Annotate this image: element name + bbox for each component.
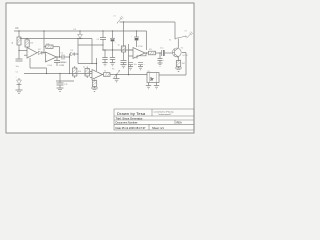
wire speaker to emitter [159, 53, 186, 76]
svg-text:1k: 1k [83, 67, 85, 69]
wire x92 right side of loop [91, 39, 93, 64]
svg-text:X1: X1 [114, 16, 116, 18]
op-amp U1B [46, 52, 57, 62]
svg-text:10k: 10k [46, 43, 49, 45]
ground left [16, 90, 23, 94]
wire x78 to diode [77, 45, 79, 64]
capacitor C3 on x103 [97, 31, 107, 50]
junction (78,54)? [77, 53, 78, 54]
wire input top y22 [120, 21, 176, 23]
ground under R4 [175, 67, 182, 72]
wire emitter down [177, 57, 179, 61]
resistor R10 feedback U1B [44, 43, 60, 48]
connector X1 input jack [114, 16, 124, 24]
junction rail x103 [102, 30, 103, 31]
capacitor C16 to ground [138, 63, 146, 70]
resistor R8 [118, 45, 126, 53]
svg-text:converted to sPlan by: converted to sPlan by [154, 110, 175, 113]
wire opamp1 minus input [19, 50, 27, 52]
wire U2 small loop [137, 53, 146, 59]
potentiometer P1 arrow [112, 69, 120, 82]
junction rail x80 [79, 30, 80, 31]
wire to C8 [156, 52, 162, 54]
wire left branch x19 upper [18, 31, 20, 37]
svg-text:Sheet: 1/1: Sheet: 1/1 [152, 126, 164, 130]
junction rail x19 [18, 30, 19, 31]
svg-text:REA: REA [177, 122, 182, 125]
wire x146.5 from rail [146, 31, 148, 50]
op-amp U3 [90, 70, 103, 80]
capacitor C13 branch on y57 [54, 56, 65, 66]
wire x123.5 down [123, 22, 125, 46]
wire x69.5 down to row2 [69, 57, 71, 74]
junction (46.5,73.5) [46, 73, 47, 74]
svg-text:Ub: Ub [15, 26, 19, 30]
svg-text:LS1: LS1 [147, 71, 150, 73]
resistor R3 [149, 49, 156, 55]
wire y73.5 row2 [24, 73, 92, 75]
junction rail x136.5 [136, 30, 137, 31]
svg-text:S1: S1 [169, 40, 171, 42]
junction (92,63.5) [91, 63, 92, 64]
wire x60 down [59, 74, 61, 82]
junction (59.5,57) [59, 56, 60, 57]
junction (80,38.5) [79, 38, 80, 39]
junction (160,53) [159, 52, 160, 53]
diode D5 under rail [74, 29, 83, 39]
wire y45 [78, 44, 103, 46]
svg-text:10u: 10u [160, 48, 163, 50]
resistor R2 top of opamp1 [25, 40, 33, 47]
wire x123.5 mid [123, 52, 125, 60]
wire y63.5 [78, 63, 97, 65]
wire x96.5 [96, 58, 98, 71]
wire R11 to pot [110, 74, 147, 77]
svg-text:BC547: BC547 [183, 55, 189, 57]
junction (128.5,74.5) [128, 74, 129, 75]
diode D1 [17, 78, 22, 90]
op-amp U2 [129, 46, 146, 59]
svg-text:3r: 3r [150, 76, 154, 81]
wire y81 stub [56, 80, 74, 82]
resistor R11 [104, 71, 111, 77]
title block [114, 109, 194, 130]
junction (60,73.5) [59, 73, 60, 74]
wire U3 out [103, 74, 104, 76]
svg-text:10k: 10k [78, 71, 81, 73]
wire x78 riser [77, 39, 80, 46]
capacitor C7 to ground [110, 50, 115, 66]
ground speaker right [154, 83, 159, 89]
resistor R4 emitter [176, 60, 186, 67]
speaker LS1 [147, 71, 159, 83]
wire bend to diode D3 [70, 54, 71, 57]
resistor R5 [73, 66, 81, 78]
svg-text:Document Number:: Document Number: [116, 121, 139, 125]
junction (44,52.75) [43, 52, 44, 53]
svg-text:IC1B: IC1B [138, 46, 143, 48]
capacitor C12 to ground [121, 61, 127, 68]
wire x19 mid [18, 45, 20, 59]
wire U1B output riser [57, 47, 63, 57]
capacitor C5 [61, 53, 70, 60]
wire x30 row link [30, 58, 47, 74]
svg-text:1k: 1k [118, 45, 120, 47]
wire right top corner [174, 22, 176, 38]
capacitor C8 polarized [160, 48, 172, 57]
diode D3 [71, 50, 79, 56]
op-amp U1A [24, 48, 37, 59]
junction (103,50) [102, 49, 103, 50]
svg-text:Date 05.12.2006 08:47:37: Date 05.12.2006 08:47:37 [116, 126, 147, 130]
svg-text:Drawn by Tesa: Drawn by Tesa [117, 111, 146, 116]
capacitor C14 polarized on x136.5 [131, 31, 139, 47]
capacitor C15 to ground [128, 63, 137, 70]
diode D2 [37, 49, 46, 55]
connector X2 output jack [185, 31, 193, 39]
capacitor C11 bottom [57, 81, 69, 91]
capacitor C6 to ground [102, 50, 107, 66]
junction (112.5,50) [112, 49, 113, 50]
junction (103,45) [102, 44, 103, 45]
svg-text:10k: 10k [30, 43, 33, 45]
svg-text:IC1A: IC1A [48, 64, 53, 67]
svg-text:"teslamaxwell": "teslamaxwell" [158, 113, 172, 116]
wire feedback riser x44 [43, 31, 45, 53]
wire y50 to U2 [103, 49, 133, 51]
junction rail x112.5 [112, 30, 113, 31]
capacitor C4 polarized under rail [110, 31, 117, 50]
junction (27,38.5) [26, 38, 27, 39]
label IC1A [48, 64, 53, 67]
node Ub label [15, 26, 19, 30]
resistor R6 [83, 67, 89, 79]
junction (123.5,22) [123, 21, 124, 22]
transistor Q1 [172, 48, 188, 58]
svg-text:IC1D: IC1D [59, 65, 64, 67]
resistor R1 [12, 37, 21, 45]
wire y38.5 upper loop [20, 38, 92, 40]
junction (44,31) [43, 30, 44, 31]
wire x128.5 down [128, 44, 130, 75]
switch S1 [169, 36, 186, 42]
capacitor C1 plates [16, 59, 23, 61]
svg-text:X2: X2 [185, 31, 187, 33]
svg-text:Titel: Sinus Generator: Titel: Sinus Generator [116, 117, 143, 121]
svg-text:10u: 10u [134, 64, 137, 66]
wire supply rail y31 [14, 30, 147, 32]
junction (146.5,53)? [146, 52, 147, 53]
ground speaker left [146, 83, 151, 89]
capacitor C9 to ground [158, 53, 166, 66]
resistor R7 under U3 [91, 80, 98, 92]
svg-text:LM348N: LM348N [59, 62, 67, 64]
junction (96.5,63.5) [96, 63, 97, 64]
wire U2 out [145, 52, 149, 54]
wire collector up [177, 39, 179, 48]
svg-text:1k: 1k [104, 71, 106, 73]
IC text labels [59, 62, 67, 67]
junction (105,50) [104, 49, 105, 50]
junction (19,50.5) [18, 50, 19, 51]
